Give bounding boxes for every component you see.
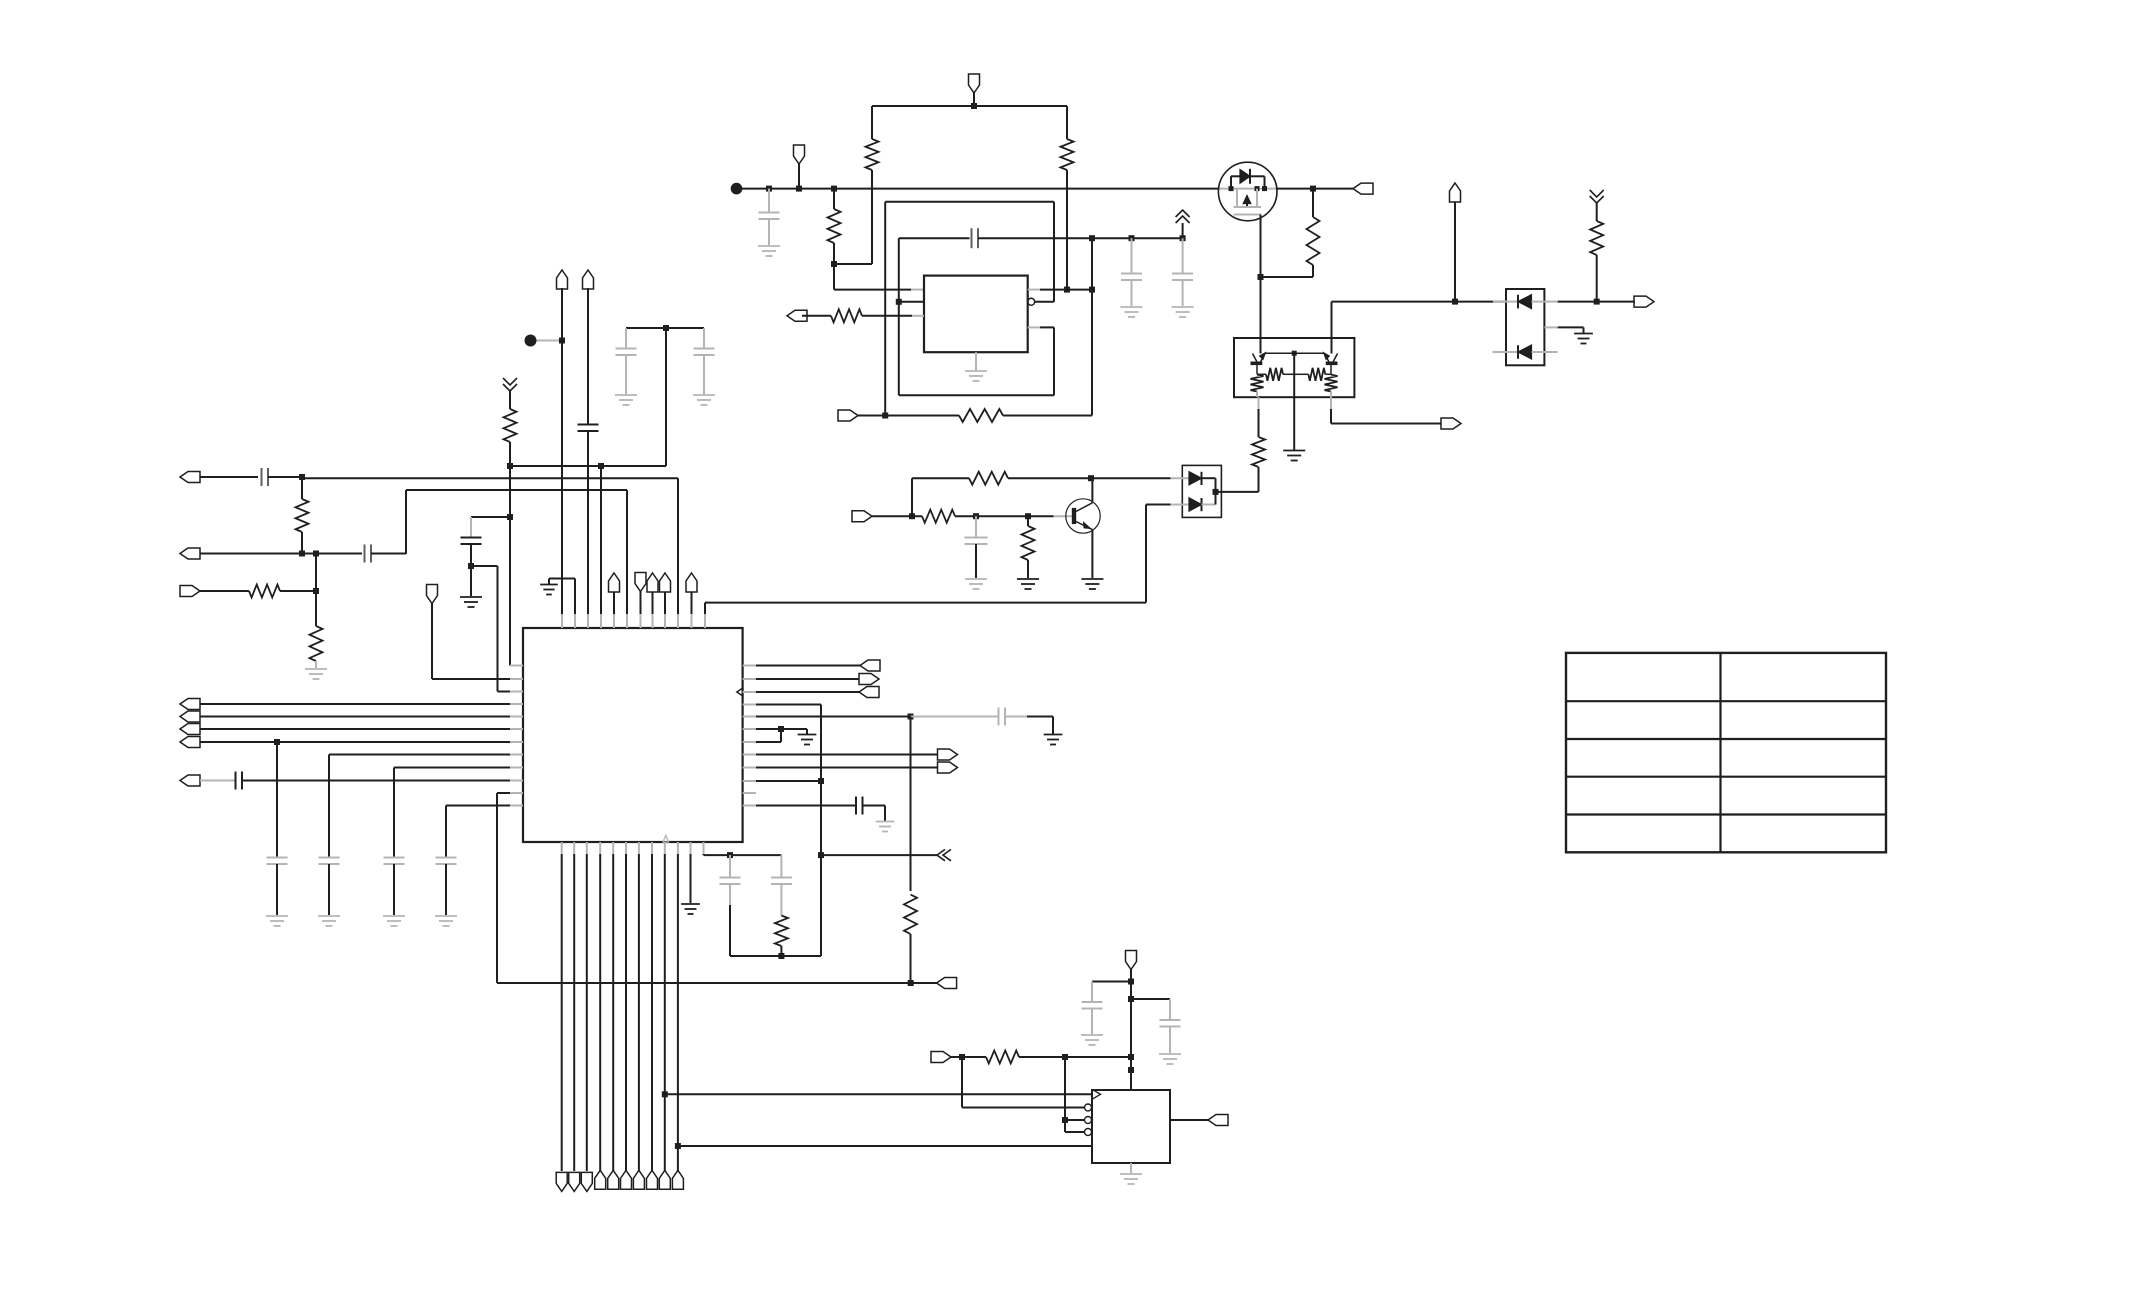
wire y=692 + tag(left) [756, 687, 879, 698]
tag EN (left) [787, 310, 807, 321]
capacitor C18 + resistor R18 (x=781.4) [771, 855, 792, 956]
wire (471,566) to U2 pin y=691.5 [471, 566, 523, 692]
U2 right stub y=793 (n.c.) [0, 0, 1, 1]
net U2 pin y=793 left route [497, 793, 912, 983]
chassis chevron-left (y=855.1) [937, 849, 951, 860]
wire x=510 down to U2 [510, 466, 523, 666]
ground (C8) [693, 395, 715, 405]
junction dot (821,781) [818, 778, 824, 784]
junction dot (781.4,956) [778, 953, 784, 959]
wire U2 bottom pin x=703.5 [703, 842, 705, 855]
wire y=704.5 to x=821 [756, 704, 821, 706]
net pin x=588 with series cap C6 [578, 288, 599, 614]
junction dot (962,1057) [959, 1054, 965, 1060]
ground (Q3 emitter) [1081, 579, 1103, 589]
capacitor C19 (x=1092) [1082, 982, 1103, 1035]
junction dot (910.7,983) [908, 980, 914, 986]
junction dot (1065,1120) [1062, 1117, 1068, 1123]
diode D1b (bottom, points left) [1493, 345, 1558, 359]
chassis chevron (x=1182.6) [1176, 210, 1190, 238]
resistor R14 (y=478.2) [969, 472, 1008, 485]
wire main VIN rail y=188.6 [742, 188, 1353, 190]
net pin x=705 to D2b [704, 603, 706, 614]
U3 ground [1120, 1163, 1142, 1184]
diode D1a (top, points left) [1493, 295, 1558, 309]
ground (R13) [1017, 579, 1039, 589]
junction dot (677.9,1146) [675, 1143, 681, 1149]
junction dot (1065,1057) [1062, 1054, 1068, 1060]
net pin x=678 up-left [302, 478, 678, 614]
Q2 base rail [1265, 351, 1324, 356]
junction dot (1092,289.6) [1089, 287, 1095, 293]
wire y=716.5 rail [756, 716, 911, 718]
U1 output pin A y=289.6 [1028, 289, 1092, 291]
wire y=767.5 + tag(right) [756, 762, 958, 773]
bus wires from U2 bottom pins [562, 842, 678, 1171]
tags (down) bus 1-3 [556, 1172, 592, 1191]
table (5 rows x 2 cols) [1566, 653, 1886, 852]
capacitor C1 (VIN bypass) [759, 189, 780, 245]
resistor R11 (pullup x=1596.7) [1590, 203, 1603, 302]
wire y=742 tie [756, 729, 781, 742]
ground (C20) [1159, 1054, 1181, 1064]
tag (left tip) y=983 [911, 978, 957, 989]
outer loop wire (pin B route) [885, 202, 1054, 416]
diode D2b (bottom, points right) [1146, 498, 1216, 511]
tag (down) x=432 [427, 585, 438, 604]
junction dot (510,517) [507, 514, 513, 520]
wire y=729 to dot [756, 728, 781, 730]
U3 pin4 bubble [1085, 1129, 1092, 1136]
wire y=477 to x=678 net [301, 477, 303, 478]
Q3 collector wire [1091, 478, 1093, 503]
wire x=1131 supply [1130, 970, 1132, 1091]
junction dot (302,553.5) [299, 551, 305, 557]
junction dot (510,466) [507, 463, 513, 469]
IC U3 box [1092, 1090, 1170, 1163]
ground (C1) [758, 246, 780, 256]
U2 pin1 notch [663, 835, 669, 842]
D1 center pin to ground [1544, 327, 1583, 333]
wire y=466 [510, 328, 666, 466]
Q2 right device [1324, 353, 1338, 375]
tag (left) y=716.5 + wire [180, 711, 510, 722]
U1 ground pin [965, 352, 987, 381]
ground (C10) [266, 916, 288, 926]
junction dots on VIN rail [766, 186, 1316, 192]
junction dot (1182.6,238.2) [1180, 235, 1186, 241]
junction dot (1215.5,491.9) [1213, 489, 1219, 495]
wire x=1092 vertical (415.5 to 238.2) [1091, 238, 1093, 415]
wire y=553.5 [200, 553, 316, 555]
resistor R5 (feedback) [959, 409, 1003, 422]
wire y=1146 [678, 1145, 1092, 1147]
ground (C5) [965, 579, 987, 589]
capacitor C12 (x=394) [384, 858, 405, 916]
ground (C15) [1044, 735, 1063, 745]
junction dot (821,855.1) [818, 852, 824, 858]
tag (left) y=729 + wire [180, 724, 510, 735]
wire y=301.6 to diode box D1 [1332, 301, 1507, 303]
wire y=805.5 series cap C16 [756, 797, 885, 822]
tag FB (right tag at y=415.5) [838, 410, 858, 421]
resistor R19 (y=1057) [986, 1051, 1019, 1064]
resistor R10 (Q2 right vert) [1325, 375, 1338, 397]
U2 right pin stubs [743, 666, 756, 806]
junction dot (316,591) [313, 588, 319, 594]
Q2 right emitter out [1331, 397, 1441, 424]
ground (C11) [318, 916, 340, 926]
wire corner x=912 [911, 478, 913, 516]
transistor Q1 (P-MOSFET in circle) [1218, 162, 1277, 221]
wire (834,264) to regulator pin [834, 264, 924, 290]
Q2 center ground lead [1293, 353, 1295, 450]
junction dot (1260.5,277) [1258, 274, 1264, 280]
wire y=754.5 + tag(right) [756, 749, 958, 760]
tag (left) y=553.5 [180, 548, 200, 559]
junction dot (1028,516.2) [1025, 513, 1031, 519]
junction dot (976,516.2) [973, 513, 979, 519]
net VDD1 (pin x=562 to tag) [561, 288, 563, 614]
wire tag432 to U2 pin y=679 [432, 604, 523, 680]
capacitor C20 (x=1170) [1160, 1020, 1181, 1053]
net x=910.5 vertical + resistor R17 [904, 717, 917, 984]
junction dot (781,729) [778, 726, 784, 732]
wire D2b feed (x=1146) [705, 505, 1146, 603]
junction dot (664.8,1094.3) [662, 1091, 668, 1097]
diode D1 box [1506, 289, 1544, 365]
diode D2 box [1182, 465, 1221, 517]
tag (up) at x=1455 [1450, 183, 1461, 302]
wire base y=516.2 [872, 515, 1072, 517]
Q3 emitter wire [1091, 530, 1093, 578]
resistor R7 (Q2 left horiz) [1257, 368, 1294, 381]
wire clock y=1094.3 [665, 1093, 1092, 1095]
junction dot (912,516.2) [909, 513, 915, 519]
net pin x=575 to ground [549, 579, 575, 615]
wire Q2 right collector up [1331, 302, 1333, 354]
junction dot (910.5,716.5) [908, 714, 914, 720]
junction dot (898.8,301.8) [896, 299, 902, 305]
capacitor C17 (x=730) [720, 855, 741, 956]
wire R4 to tag [802, 315, 831, 317]
capacitor C15 (series y=716.5) [911, 708, 1054, 735]
capacitor C2 (feedforward, series) [972, 228, 1093, 248]
wire y=956 tie [730, 955, 821, 957]
U2 input arrow y=692 [737, 688, 744, 697]
resistor R1 (x=834) [828, 189, 841, 264]
ground (x=690.5) [681, 904, 700, 914]
tag (right tip) y=1057 [931, 1052, 951, 1063]
resistor R12 (base series) [922, 510, 955, 523]
ground (R22) [305, 669, 327, 679]
capacitor C9 (x=471) [461, 517, 511, 566]
tag (left) y=780.5 + series cap C13 [180, 772, 510, 790]
Q2 left device [1251, 353, 1266, 375]
tag (right tip) base input y=516.2 [852, 511, 872, 522]
diode D2a (top, points right) [1171, 472, 1216, 485]
net pin x=601 up [600, 466, 602, 614]
power tag P2 (down tag on VIN) [794, 145, 805, 189]
wire x=962 to U3 pin2 [962, 1057, 1085, 1108]
capacitor C8 (x=704) [694, 328, 715, 394]
ground (C3) [1121, 307, 1143, 317]
resistor R16 (x=510) [504, 391, 517, 466]
wire x=1065 to U3 pins 3-4 [1065, 1057, 1085, 1132]
power tag P1 (top, down tag) [969, 74, 980, 106]
wire D1a cathode out [1558, 301, 1635, 303]
U1 pin stub left y=315.8 [912, 315, 924, 317]
resistor R15 (x=1258.5) [1252, 397, 1265, 467]
node J2 (filled circle) [525, 335, 563, 347]
wire y=238.2 to bypass caps [1092, 237, 1183, 239]
ground (C9) [460, 566, 482, 607]
U3 output wire + tag(left) [1170, 1115, 1228, 1126]
net pin x=627 up-left [406, 490, 627, 614]
wire y=999 [1131, 999, 1170, 1019]
tag (up) x=588 [583, 270, 594, 289]
junction dot (730,855.1) [727, 852, 733, 858]
transistor Q2 box (dual digital PNP) [1234, 338, 1354, 397]
wire y=415.5 [858, 415, 1092, 417]
resistor R2 (x=872) [834, 106, 879, 264]
resistor R21 (y=591) [249, 585, 280, 598]
tag (up) x=652.5 [647, 573, 658, 614]
wire y=805.5 from C14 [446, 806, 510, 858]
tag (left) y=742 + wire [180, 737, 510, 748]
capacitor C10 (x=277) [267, 742, 288, 915]
U2 top pin stubs [562, 614, 705, 628]
wire Q1 gate to Q2 box [1260, 277, 1262, 354]
D2 common cathode [1215, 478, 1217, 504]
tag (up) x=691.5 [686, 573, 697, 614]
capacitor C14 (x=446) [436, 858, 457, 916]
wire y=328 caps rail [626, 327, 704, 329]
regulator U1 box [924, 276, 1028, 353]
U3 clock arrow [1092, 1089, 1101, 1099]
junction dot (1091,478.2) [1088, 475, 1094, 481]
ground (C19) [1081, 1035, 1103, 1045]
wire U1 EN pin y=315.8 [862, 315, 912, 317]
tag VOUT (left-tip tag at rail end) [1353, 183, 1373, 194]
tag (right tip) at y=301.6 [1634, 296, 1654, 307]
tags (up) bus 4-10 [595, 1170, 684, 1189]
tag (up) x=614 [609, 573, 620, 614]
wire y=855.1 right segment [821, 854, 937, 856]
chassis chevron (x=1596.7) [1590, 190, 1604, 203]
U1 pin B bubble [1028, 298, 1035, 305]
junction dot (302,477) [299, 474, 305, 480]
U1 pin left y=301.8 to inner loop [899, 301, 924, 303]
wire y=767.5 from C12 [394, 768, 510, 858]
node J1 (input power node) [731, 183, 743, 195]
junction dot (834,264) [831, 261, 837, 267]
tag (up) x=562 [557, 270, 568, 289]
tag (left) y=704 + wire [180, 699, 510, 710]
resistor R9 (Q2 left vert) [1251, 375, 1264, 397]
ground (y=729 net) [781, 729, 816, 745]
junction dot (1455,301.6) [1452, 299, 1458, 305]
junction dot (885.2,415.5) [882, 413, 888, 419]
tag (right tip) y=591 [180, 586, 200, 597]
ground (C16) [876, 822, 895, 832]
wire y=781 to x=821 [756, 780, 821, 782]
junction dots x=1131 [1128, 979, 1134, 1074]
inner loop wire (pin FB route) [899, 238, 1054, 395]
ground (x=549) [540, 585, 558, 595]
junction dot (277,742) [274, 739, 280, 745]
ground (C4) [1172, 307, 1194, 317]
junction dot (1092,238.2) [1089, 235, 1095, 241]
U3 pin3 bubble [1085, 1117, 1092, 1124]
chassis chevron (x=510) [503, 378, 517, 391]
capacitor C3 (x=1131.5) [1121, 238, 1142, 306]
resistor R6 (gate pulldown) [1261, 189, 1320, 277]
junction dot (562,340.5) [559, 338, 565, 344]
Q1 gate lead [1260, 215, 1262, 278]
ground (C12) [383, 916, 405, 926]
capacitor C7 (x=626) [616, 328, 637, 394]
IC U2 box [523, 628, 743, 842]
U3 pin2 bubble [1085, 1104, 1092, 1111]
wire y=477 w/ series cap C21 [200, 468, 302, 486]
wire y=679 + tag(right) [756, 674, 879, 685]
junction dot (974,106) [971, 103, 977, 109]
junction dot (601,466) [598, 463, 604, 469]
ground (C14) [435, 916, 457, 926]
tag (right tip) at y=423.5 [1441, 418, 1461, 429]
wire y=665.5 + tag(left) [756, 660, 880, 671]
capacitor C11 (x=329) [319, 858, 340, 916]
wire y=553.5 w/ series cap C22 [316, 545, 406, 563]
resistor R3 (x=1067) [1061, 106, 1074, 290]
ground (Q2 center) [1283, 451, 1305, 461]
wire y=855.1 left segment [704, 854, 782, 856]
resistor R13 (x=1028) [1022, 516, 1035, 578]
resistor R4 (EN) [831, 309, 862, 322]
wire vertical x=821 [820, 705, 822, 957]
top rail y=106 [872, 105, 1067, 107]
wire x=316 down [315, 554, 317, 627]
resistor R22 (x=316) [310, 626, 323, 668]
junction dot (1596.7,301.6) [1594, 299, 1600, 305]
wire D2 to R15 [1216, 467, 1259, 492]
tag (left) y=477 [180, 472, 200, 483]
tag (down) x=640.5 [635, 573, 646, 615]
resistor R20 (x=302) [296, 478, 309, 553]
junction dot (1131.5,238.2) [1129, 235, 1135, 241]
junction dot (471,566) [468, 563, 474, 569]
wire U2 bottom pin x=690.5 to ground [690, 842, 692, 903]
resistor R8 (Q2 right horiz) [1294, 368, 1331, 381]
wire collector rail y=478.2 [912, 477, 1171, 479]
ground (C7) [615, 395, 637, 405]
wire y=981.5 [1092, 981, 1131, 983]
wire y=754.5 from C11 [329, 755, 510, 858]
junction dot (666,328) [663, 325, 669, 331]
capacitor C4 (x=1182.6) [1172, 238, 1193, 306]
junction dot (316,553.5) [313, 551, 319, 557]
wire y=591 [200, 590, 316, 592]
tag (down) x=1131 top [1126, 951, 1137, 970]
ground (D1 center) [1574, 334, 1593, 344]
capacitor C5 (x=976) [965, 516, 988, 578]
wire y=1057 [951, 1056, 1131, 1058]
U2 left pin stubs [510, 666, 523, 806]
junction dot (1067,289.6) [1064, 287, 1070, 293]
tag (up) x=665 [660, 573, 671, 614]
transistor Q3 (NPN) [1066, 499, 1100, 533]
